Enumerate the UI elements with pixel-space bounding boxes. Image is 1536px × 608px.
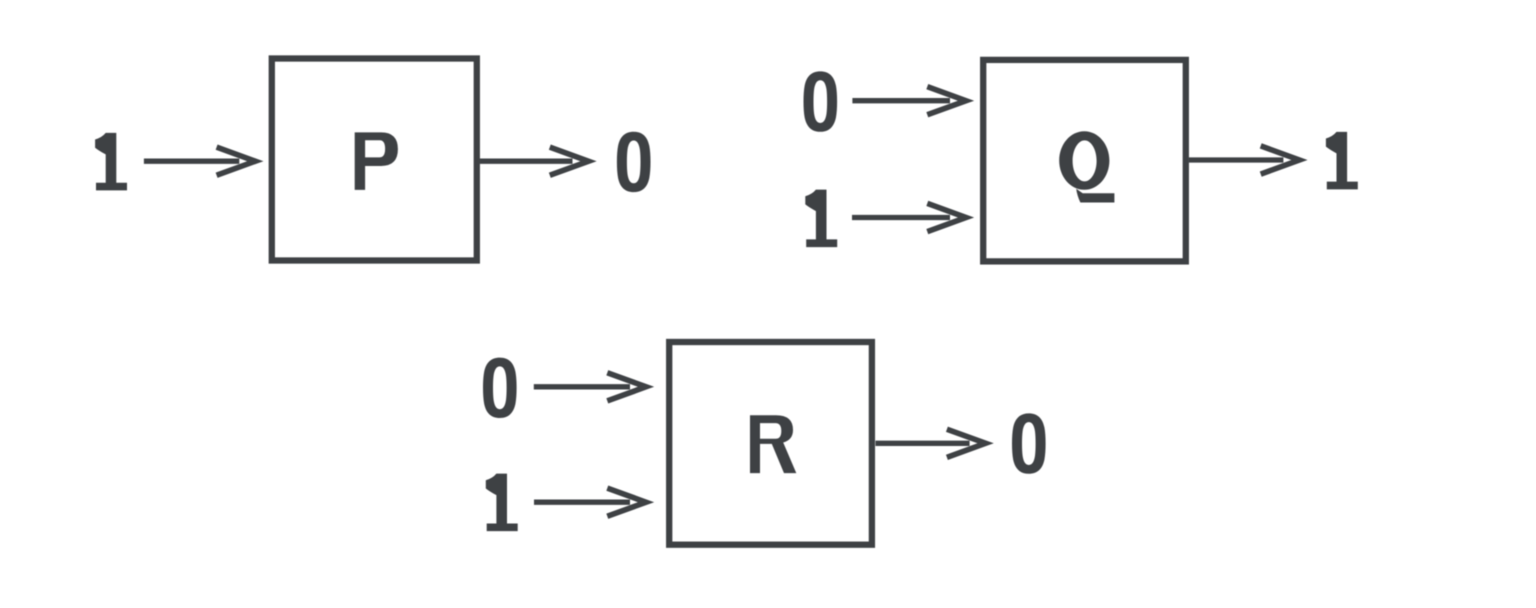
wire: bottom input arrow into R	[534, 488, 646, 516]
wire: output arrow from Q	[1189, 146, 1299, 174]
wire: output arrow from P	[480, 147, 589, 175]
wire: top input arrow into R	[534, 373, 646, 401]
wire: output arrow from R	[876, 429, 986, 457]
block R	[669, 342, 872, 545]
input value 0 (block Q, top)	[804, 71, 838, 131]
output value 0 (block R)	[1012, 413, 1046, 473]
input value 1 (block P)	[95, 133, 127, 191]
input value 0 (block R, top)	[483, 358, 517, 418]
output value 0 (block P)	[617, 132, 651, 192]
block Q	[983, 60, 1186, 262]
wire: input arrow into P	[144, 147, 255, 175]
block P	[272, 59, 477, 261]
wire: bottom input arrow into Q	[852, 203, 966, 231]
output value 1 (block Q)	[1326, 132, 1358, 190]
label Q	[1059, 131, 1109, 190]
label R	[750, 415, 796, 473]
label P	[355, 132, 398, 190]
input value 1 (block R, bottom)	[486, 474, 518, 532]
wire: top input arrow into Q	[852, 87, 966, 115]
input value 1 (block Q, bottom)	[805, 190, 837, 248]
